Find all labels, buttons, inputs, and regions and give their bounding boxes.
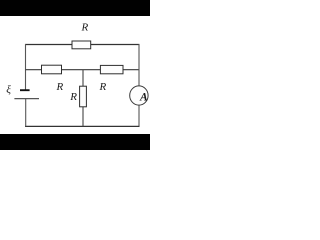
wire: right branch upper bbox=[138, 44, 140, 86]
ammeter A circle bbox=[130, 86, 148, 105]
wire: right branch lower (below ammeter) bbox=[138, 105, 140, 127]
battery cell ξ : short thick negative plate bbox=[20, 89, 30, 91]
wire: top rail bbox=[25, 44, 139, 46]
wire: left branch lower (battery bottom lead) bbox=[25, 99, 27, 127]
letterbox bar bottom bbox=[0, 134, 150, 150]
battery cell ξ : long thin positive plate bbox=[14, 98, 39, 100]
resistor R (middle-left) bbox=[42, 65, 62, 74]
svg-text:R: R bbox=[69, 91, 77, 103]
wire: middle branch lower lead bbox=[82, 107, 84, 127]
svg-text:ξ: ξ bbox=[6, 84, 11, 96]
svg-text:R: R bbox=[99, 81, 107, 93]
resistor R (top) bbox=[72, 41, 91, 49]
svg-text:A: A bbox=[139, 92, 148, 104]
wire: left branch upper (battery top lead) bbox=[25, 44, 27, 90]
resistor R (vertical middle branch) bbox=[80, 86, 87, 107]
wire: middle branch upper lead bbox=[82, 70, 84, 87]
resistor R (middle-right) bbox=[100, 65, 123, 73]
letterbox bar top bbox=[0, 0, 150, 16]
svg-text:R: R bbox=[81, 21, 89, 33]
wire: middle rail bbox=[26, 69, 140, 71]
svg-text:R: R bbox=[56, 81, 64, 93]
wire: bottom rail bbox=[25, 125, 140, 127]
